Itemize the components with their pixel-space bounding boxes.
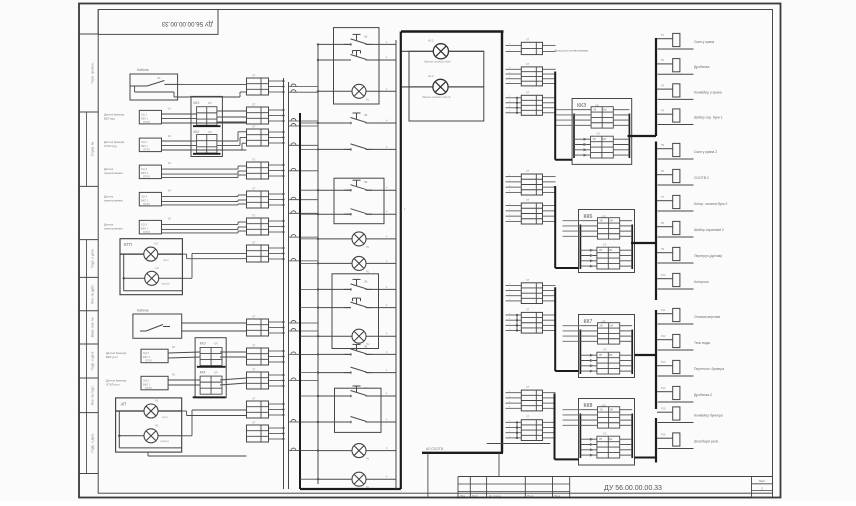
svg-text:СООТВ 2: СООТВ 2	[694, 176, 709, 180]
svg-text:HL2: HL2	[428, 74, 434, 78]
svg-text:Скип у крана: Скип у крана	[694, 40, 714, 44]
svg-text:ОТКЛ: ОТКЛ	[143, 230, 150, 234]
svg-text:ВКЛ 1: ВКЛ 1	[141, 116, 149, 120]
svg-text:КМ: КМ	[609, 354, 612, 357]
svg-text:SQ 6: SQ 6	[143, 378, 149, 382]
svg-text:HL1: HL1	[428, 39, 434, 43]
svg-text:КМ: КМ	[603, 109, 606, 112]
svg-text:ОТКЛ руд: ОТКЛ руд	[104, 144, 117, 148]
svg-text:УВ: УВ	[599, 438, 603, 441]
svg-text:SQ 3: SQ 3	[141, 167, 147, 171]
svg-text:Взам. инв. №: Взам. инв. №	[91, 317, 95, 337]
svg-text:ОТКЛ: ОТКЛ	[145, 359, 152, 363]
svg-text:ХТ: ХТ	[252, 344, 256, 348]
svg-text:Шибер охранный 2: Шибер охранный 2	[694, 228, 724, 232]
svg-text:УВ: УВ	[599, 354, 603, 357]
svg-text:ОТКЛ: ОТКЛ	[143, 148, 150, 152]
svg-text:Шибер охр. бунк 1: Шибер охр. бунк 1	[694, 116, 723, 120]
svg-text:Кабина: Кабина	[137, 309, 149, 313]
svg-text:ХТ: ХТ	[252, 421, 256, 425]
svg-text:(зел): (зел)	[162, 416, 168, 419]
svg-text:КМ: КМ	[603, 138, 606, 141]
svg-text:КМ: КМ	[609, 438, 612, 441]
svg-text:Откатка верхняя: Откатка верхняя	[694, 315, 720, 319]
svg-text:УВ: УВ	[593, 138, 597, 141]
svg-text:ВКЛ 1: ВКЛ 1	[141, 198, 149, 202]
svg-text:ХТ: ХТ	[252, 125, 256, 129]
svg-text:ВКЛ 1: ВКЛ 1	[141, 144, 149, 148]
svg-text:Подп. и дата: Подп. и дата	[91, 433, 95, 452]
svg-text:Подп. и дата: Подп. и дата	[91, 351, 95, 370]
svg-text:ДУ 56.00.00.00.33: ДУ 56.00.00.00.33	[604, 485, 662, 492]
svg-text:ХТ: ХТ	[526, 90, 530, 94]
svg-text:КК4: КК4	[200, 370, 206, 374]
svg-text:Переполн. бункера: Переполн. бункера	[694, 367, 724, 371]
svg-text:ХТ: ХТ	[526, 307, 530, 311]
svg-text:ХТ: ХТ	[252, 397, 256, 401]
svg-text:Конвейер у крана: Конвейер у крана	[694, 90, 722, 94]
svg-text:КМ: КМ	[610, 220, 613, 223]
svg-text:УВ: УВ	[600, 220, 604, 223]
svg-text:Р13: Р13	[661, 361, 666, 364]
svg-text:SB: SB	[364, 114, 368, 117]
svg-text:Изм: Изм	[460, 494, 465, 498]
svg-text:Перегруз (датчик): Перегруз (датчик)	[694, 254, 722, 258]
svg-text:Р16: Р16	[661, 434, 666, 437]
svg-text:Н2: Н2	[155, 424, 159, 428]
svg-text:У2: У2	[597, 131, 601, 135]
svg-text:SA: SA	[157, 76, 161, 80]
svg-text:У2: У2	[603, 347, 607, 351]
svg-text:УВ: УВ	[600, 409, 604, 412]
svg-text:Течь воды: Течь воды	[694, 341, 711, 345]
svg-text:КК1: КК1	[194, 101, 200, 105]
svg-text:ХТ: ХТ	[526, 62, 530, 66]
svg-text:ОТКЛ: ОТКЛ	[143, 120, 150, 124]
svg-text:Подп. и дата: Подп. и дата	[91, 249, 95, 268]
svg-text:Р14: Р14	[661, 387, 666, 390]
svg-text:Р15: Р15	[661, 408, 666, 411]
svg-text:ХТ: ХТ	[526, 278, 530, 282]
svg-text:(Звонок громкого боя 2): (Звонок громкого боя 2)	[422, 95, 451, 99]
svg-text:Р11: Р11	[661, 309, 666, 312]
svg-text:Подп.: Подп.	[527, 494, 535, 498]
svg-text:SQ 5: SQ 5	[141, 222, 147, 226]
svg-text:ОТКЛ: ОТКЛ	[145, 386, 152, 390]
svg-text:(зел): (зел)	[163, 259, 169, 262]
svg-text:ВКЛ руд: ВКЛ руд	[104, 116, 115, 120]
svg-text:(Звонок громкого боя): (Звонок громкого боя)	[424, 60, 451, 64]
svg-text:УВ: УВ	[593, 109, 597, 112]
svg-text:ХТ: ХТ	[252, 187, 256, 191]
svg-text:Лист: Лист	[759, 479, 766, 483]
svg-text:КТП: КТП	[124, 242, 132, 247]
svg-text:SQ 6: SQ 6	[143, 351, 149, 355]
svg-text:Дробилка 2: Дробилка 2	[694, 393, 712, 397]
svg-text:SB: SB	[364, 181, 368, 184]
svg-text:Выход на сигнализацию: Выход на сигнализацию	[555, 49, 589, 53]
svg-text:ККЗ: ККЗ	[577, 103, 586, 109]
svg-text:УВ: УВ	[600, 325, 604, 328]
svg-text:Перв. примен.: Перв. примен.	[91, 62, 95, 83]
svg-text:У2: У2	[603, 242, 607, 246]
svg-text:(красн): (красн)	[161, 440, 169, 443]
svg-text:ХТ: ХТ	[252, 241, 256, 245]
svg-text:КК2: КК2	[194, 130, 200, 134]
svg-text:№ докум.: № докум.	[489, 494, 502, 498]
svg-text:SB: SB	[364, 387, 368, 390]
svg-text:ВКЛ 1: ВКЛ 1	[141, 171, 149, 175]
svg-text:ХТ: ХТ	[252, 103, 256, 107]
svg-text:Контроль: Контроль	[694, 280, 709, 284]
svg-text:Дробилка: Дробилка	[694, 65, 709, 69]
svg-text:SB: SB	[364, 35, 368, 38]
svg-text:ХТ: ХТ	[526, 198, 530, 202]
svg-text:КЛ: КЛ	[208, 101, 212, 105]
svg-text:ХТ: ХТ	[252, 158, 256, 162]
svg-text:ХТ: ХТ	[526, 169, 530, 173]
svg-text:ОТКЛ: ОТКЛ	[143, 202, 150, 206]
svg-text:Лист: Лист	[472, 494, 479, 498]
svg-text:ОТКЛ: ОТКЛ	[143, 175, 150, 179]
svg-text:ККЗ: ККЗ	[200, 342, 206, 346]
svg-text:ХТ: ХТ	[252, 368, 256, 372]
svg-text:Контр. откатки бунк 2: Контр. откатки бунк 2	[694, 202, 728, 206]
svg-text:SQ 2: SQ 2	[141, 140, 147, 144]
svg-text:ВКЛ угол: ВКЛ угол	[106, 355, 118, 359]
svg-text:КК8: КК8	[584, 403, 593, 409]
svg-text:Н1: Н1	[155, 242, 159, 246]
svg-text:Кабина: Кабина	[137, 68, 149, 72]
svg-text:Дата: Дата	[554, 494, 561, 498]
svg-text:Скип у крана 2: Скип у крана 2	[694, 150, 717, 154]
svg-text:Р12: Р12	[661, 335, 666, 338]
svg-text:ХТ: ХТ	[252, 315, 256, 319]
svg-text:SB: SB	[364, 280, 368, 283]
svg-text:У2: У2	[603, 431, 607, 435]
svg-text:КК7: КК7	[584, 319, 593, 325]
svg-text:Инв. № дубл.: Инв. № дубл.	[91, 284, 95, 304]
svg-text:АП: АП	[121, 402, 127, 407]
svg-text:переполнения: переполнения	[104, 171, 123, 175]
svg-text:ХТ: ХТ	[252, 214, 256, 218]
svg-text:Конвейер бункера: Конвейер бункера	[694, 414, 723, 418]
svg-text:(красн): (красн)	[162, 283, 170, 286]
svg-text:Р10: Р10	[661, 274, 666, 277]
svg-text:Справ. №: Справ. №	[91, 141, 95, 156]
svg-text:ХТ: ХТ	[252, 74, 256, 78]
svg-text:КМ: КМ	[610, 325, 613, 328]
svg-text:переполнения: переполнения	[104, 226, 123, 230]
svg-text:КК6: КК6	[584, 214, 593, 220]
svg-text:ДУ 56.00.00.00.33: ДУ 56.00.00.00.33	[161, 20, 213, 27]
svg-text:ВКЛ 1: ВКЛ 1	[143, 355, 151, 359]
svg-text:КЛ: КЛ	[208, 130, 212, 134]
svg-text:Шлагбаум реле: Шлагбаум реле	[694, 440, 718, 444]
svg-text:ХТ: ХТ	[526, 385, 530, 389]
svg-text:ХТ: ХТ	[526, 415, 530, 419]
svg-text:переполнения: переполнения	[104, 198, 123, 202]
svg-text:ВКЛ 1: ВКЛ 1	[141, 226, 149, 230]
svg-text:КМ: КМ	[609, 249, 612, 252]
svg-text:КЛ: КЛ	[214, 342, 218, 346]
svg-text:УВ: УВ	[599, 249, 603, 252]
svg-text:ВКЛ 1: ВКЛ 1	[143, 382, 151, 386]
svg-text:Инв. № подл.: Инв. № подл.	[91, 385, 95, 405]
svg-text:SQ 4: SQ 4	[141, 194, 147, 198]
svg-text:АЛ СООТВ.: АЛ СООТВ.	[426, 447, 444, 451]
svg-text:Н2: Н2	[156, 266, 160, 270]
svg-text:КМ: КМ	[610, 409, 613, 412]
svg-text:Н1: Н1	[155, 399, 159, 403]
svg-text:ХТ: ХТ	[526, 37, 530, 41]
svg-text:КЛ: КЛ	[214, 370, 218, 374]
svg-text:SQ 1: SQ 1	[141, 112, 147, 116]
svg-text:ОТКЛ угол: ОТКЛ угол	[106, 382, 120, 386]
